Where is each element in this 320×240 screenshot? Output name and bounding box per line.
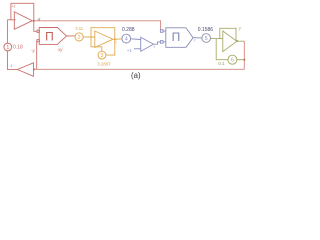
wire U1 input from left column: [7, 19, 15, 21]
junction dot U3 output: [114, 38, 116, 40]
svg-text:xy: xy: [57, 47, 63, 52]
svg-text:+1: +1: [127, 48, 133, 53]
op-amp U5 (olive amplifier): [223, 31, 237, 52]
node 3 (orange circle 3): [98, 51, 106, 59]
wire M2 output to node 5: [193, 37, 202, 39]
pin box M2 input 1: [160, 30, 163, 33]
svg-text:0.1586: 0.1586: [198, 27, 214, 33]
svg-text:4: 4: [125, 37, 128, 43]
svg-text:0.288: 0.288: [122, 27, 135, 33]
node x (output of U1): [33, 20, 35, 22]
node 5 (circle 5): [202, 34, 211, 43]
svg-text:-t: -t: [114, 40, 117, 45]
svg-text:1: 1: [10, 63, 12, 68]
junction dot U5 output: [236, 40, 238, 42]
feedback box of U5: [220, 28, 236, 40]
svg-text:3.2867: 3.2867: [97, 62, 111, 67]
node 6 (olive circle 6): [228, 55, 237, 64]
multiplier M1 (red PI block): [39, 28, 66, 45]
svg-text:t: t: [154, 44, 156, 49]
svg-text:y: y: [238, 25, 242, 30]
svg-text:0.1: 0.1: [218, 61, 225, 66]
svg-text:6: 6: [231, 58, 234, 64]
wire bottom feedback up to M1 input 2: [36, 41, 38, 70]
wire right column down (output y to bottom feedback): [243, 41, 245, 69]
wire top long (U1 output to multiplier M2 pin): [34, 21, 161, 30]
wire U3 output to node 4: [115, 38, 122, 41]
pin box M1 input 1: [37, 30, 39, 32]
svg-text:5: 5: [205, 36, 208, 42]
pin box M1 input 2: [37, 40, 39, 42]
svg-text:t: t: [194, 38, 196, 43]
svg-text:Π: Π: [172, 30, 181, 44]
feedback loop of U3 upper (through node 3): [91, 28, 115, 52]
op-amp U1 (top-left red amplifier): [14, 12, 32, 30]
wire M1 output to node 2: [67, 35, 76, 37]
svg-text:3: 3: [101, 53, 104, 59]
node 1 (red circle 1): [4, 43, 12, 51]
feedback loop of U5 through node 6: [216, 39, 228, 60]
svg-text:+1: +1: [12, 4, 16, 8]
svg-text:(a): (a): [131, 71, 141, 80]
node 4 (violet circle 4): [122, 34, 131, 43]
svg-text:Π: Π: [45, 29, 54, 43]
wire left column (inverter output to U1 input through node 1): [7, 51, 17, 70]
wire node 6 to right column: [237, 59, 244, 61]
wire bottom feedback (long red bottom wire): [34, 68, 245, 70]
svg-text:1: 1: [6, 45, 9, 51]
op-amp U3 (orange amplifier): [95, 31, 113, 48]
svg-text:3.11: 3.11: [75, 26, 84, 31]
wire node 2 to op-amp U3: [83, 36, 95, 38]
svg-text:0.18: 0.18: [13, 45, 23, 51]
wire node1 to U1: [6, 20, 8, 43]
constant input stub +1 of U4: [134, 48, 141, 50]
svg-text:2: 2: [78, 35, 81, 41]
op-amp U4 (blue amplifier): [141, 37, 154, 51]
wire U1 output down to multiplier M1 input 1: [34, 21, 37, 31]
svg-text:-y: -y: [31, 48, 36, 53]
wire U5 output to right column: [237, 40, 245, 42]
wire node 5 to op-amp U5: [211, 37, 223, 39]
junction dot node6 wire: [243, 59, 245, 61]
inverter U2 (red, pointing left): [18, 63, 34, 77]
wire U4 output to multiplier M2 input 2: [154, 42, 161, 44]
wire node 4 to op-amp U4: [131, 38, 141, 41]
multiplier M2 (blue PI block): [163, 28, 193, 48]
junction dot at inverter input: [33, 68, 35, 70]
pin box M2 input 2: [160, 41, 163, 44]
feedback box of U1: [11, 3, 34, 21]
feedback loop of U3 lower (node 3 right side): [106, 39, 115, 55]
node 2 (orange circle 2): [75, 33, 83, 41]
